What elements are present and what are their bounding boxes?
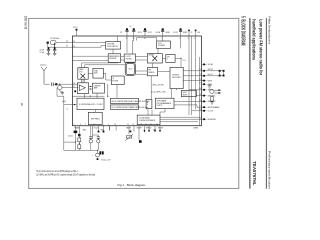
svg-text:22: 22 bbox=[199, 79, 201, 81]
capacitor C1 bbox=[47, 47, 50, 53]
svg-text:24: 24 bbox=[199, 69, 201, 71]
svg-text:5: 5 bbox=[74, 124, 75, 126]
wire demod to stereo bbox=[158, 71, 170, 73]
svg-text:TEA5767HL: TEA5767HL bbox=[252, 161, 257, 185]
svg-text:13: 13 bbox=[140, 124, 142, 126]
svg-text:11: 11 bbox=[127, 124, 129, 126]
block U8 FM mixer bbox=[147, 54, 162, 63]
wire crystal to pin XTAL1 bbox=[56, 42, 73, 44]
svg-text:5 BLOCK DIAGRAM: 5 BLOCK DIAGRAM bbox=[239, 16, 245, 45]
svg-text:VREF: VREF bbox=[208, 80, 212, 82]
svg-text:CP: CP bbox=[120, 32, 122, 34]
wire limiter down to counter bbox=[96, 93, 98, 98]
svg-text:37: 37 bbox=[66, 46, 68, 48]
svg-text:10: 10 bbox=[114, 124, 116, 126]
svg-text:2: 2 bbox=[167, 59, 168, 61]
wire crystal left lead bbox=[46, 43, 48, 48]
wire loop filter to mixer a bbox=[135, 56, 147, 58]
svg-text:23: 23 bbox=[199, 74, 201, 76]
top pin wires bbox=[127, 31, 196, 36]
svg-text:DEMOD: DEMOD bbox=[148, 72, 155, 74]
wire amp down to counter bbox=[84, 94, 86, 99]
svg-text:REF FREQ: REF FREQ bbox=[91, 118, 100, 120]
pin pad top-left bbox=[76, 29, 78, 31]
block U20 IF centre frequency strip bbox=[111, 98, 139, 103]
capacitor C2 bbox=[53, 43, 56, 54]
wire businterface to bus bbox=[160, 118, 203, 120]
wire RFI2 bbox=[62, 87, 73, 89]
header rule 2 (below title) bbox=[249, 18, 251, 189]
vertical wire DATA down bbox=[195, 36, 197, 109]
svg-text:Preliminary specification: Preliminary specification bbox=[267, 151, 271, 189]
wire counter to reference bbox=[95, 110, 97, 113]
svg-text:7: 7 bbox=[85, 124, 86, 126]
wire ports down bbox=[160, 109, 165, 115]
svg-text:DECODER: DECODER bbox=[172, 77, 181, 79]
svg-text:V batt = 3 V: V batt = 3 V bbox=[101, 159, 111, 162]
CE2 lead to rail bbox=[90, 143, 92, 150]
svg-text:38: 38 bbox=[66, 41, 68, 43]
wire K to ports bbox=[170, 89, 172, 99]
wire ports to pins bbox=[174, 100, 203, 102]
bottom pads bbox=[74, 131, 132, 134]
varicap bottom lead bbox=[60, 90, 63, 93]
audio out arrows bbox=[214, 90, 220, 94]
svg-text:TMUTE: TMUTE bbox=[126, 127, 131, 129]
svg-text:FILTER: FILTER bbox=[126, 58, 132, 60]
wires D to L bbox=[81, 79, 83, 83]
svg-text:(1) V(AFL) and V(AFR) are AC-c: (1) V(AFL) and V(AFR) are AC-coupled thr… bbox=[36, 174, 96, 177]
svg-text:21: 21 bbox=[199, 83, 201, 85]
pin stub near IC top-left bbox=[76, 31, 78, 36]
wire VCO pins down bbox=[162, 36, 164, 41]
ground 2 bbox=[61, 93, 65, 95]
wires into reference divider bbox=[73, 55, 109, 57]
feed wire from left bbox=[64, 141, 76, 143]
electrolytic cap CE2 bbox=[89, 137, 92, 140]
wire iffilter down bbox=[116, 85, 118, 99]
bottom pin labels bbox=[75, 126, 199, 131]
block U11 stereo decoder bbox=[170, 67, 183, 88]
svg-text:18: 18 bbox=[199, 100, 201, 102]
amplifier triangle in U12 bbox=[79, 85, 85, 91]
node dots input bbox=[56, 84, 61, 85]
svg-text:The pin numbers shown refer to: The pin numbers shown refer to the LQFP3… bbox=[36, 170, 78, 173]
block U10 FM demodulator bbox=[147, 68, 157, 76]
svg-text:GND2: GND2 bbox=[183, 32, 188, 34]
svg-text:Fig.1 Block diagram.: Fig.1 Block diagram. bbox=[118, 183, 147, 187]
svg-text:OSCILLATOR: OSCILLATOR bbox=[107, 45, 118, 48]
wire stubs down to CE3 bbox=[93, 135, 99, 139]
wire demod down to ADC bbox=[150, 76, 152, 100]
wire pins to block A bbox=[117, 36, 119, 42]
down arrows on bottom pins bbox=[144, 130, 161, 132]
wire mute to pins bbox=[196, 95, 203, 97]
svg-text:27: 27 bbox=[73, 86, 75, 88]
wire stereo down to mute bbox=[176, 89, 178, 91]
svg-text:IF CENTER ADJUST + COUNT: IF CENTER ADJUST + COUNT bbox=[79, 103, 103, 106]
wire mixer out down bbox=[152, 63, 154, 68]
bottom pin wires bbox=[75, 126, 160, 140]
svg-text:FILTER: FILTER bbox=[112, 80, 118, 82]
svg-text:8: 8 bbox=[21, 102, 23, 106]
svg-text:Low power FM stereo radio for: Low power FM stereo radio for bbox=[259, 19, 264, 75]
block U13 limiter bbox=[92, 83, 104, 93]
block U17 ADC bbox=[146, 99, 152, 108]
wire VCO C2 to demod bbox=[135, 70, 147, 72]
battery pad bbox=[97, 158, 99, 160]
top pin cap bars bbox=[125, 30, 182, 31]
svg-text:17: 17 bbox=[199, 106, 201, 108]
block U19 bus interface bbox=[137, 115, 160, 125]
svg-text:34: 34 bbox=[73, 46, 75, 48]
svg-text:39: 39 bbox=[144, 38, 146, 40]
battery node dot bbox=[97, 150, 98, 151]
svg-text:14: 14 bbox=[146, 124, 148, 126]
wire lna to iffilter bbox=[104, 73, 112, 80]
crystal X1 body bbox=[50, 40, 56, 44]
wire mixer to div bbox=[162, 57, 165, 59]
svg-text:38: 38 bbox=[133, 38, 135, 40]
svg-text:IF COUNTER RESULT BAND LIMITS: IF COUNTER RESULT BAND LIMITS f=150 kHz bbox=[112, 106, 149, 109]
wire C1 to C2 bbox=[129, 61, 131, 63]
svg-text:3: 3 bbox=[188, 38, 189, 40]
wire xtal1 to oscillator block bbox=[73, 42, 106, 44]
wire left down 2 bbox=[57, 88, 77, 105]
svg-text:16: 16 bbox=[156, 124, 158, 126]
svg-text:handheld applications: handheld applications bbox=[252, 19, 257, 60]
svg-text:LF: LF bbox=[130, 26, 132, 28]
battery branch wire bbox=[97, 150, 99, 153]
ground under C1 bbox=[47, 53, 51, 55]
svg-text:antenna: antenna bbox=[40, 64, 47, 67]
block labels (tiny) bbox=[79, 43, 189, 122]
small pad on chain bbox=[78, 134, 80, 136]
right external pads on tank wires bbox=[219, 70, 225, 77]
header rule 1 bbox=[265, 18, 267, 189]
CE2 circle bbox=[89, 140, 92, 143]
pin numbers left inside bbox=[73, 41, 75, 88]
svg-text:DIVIDER: DIVIDER bbox=[109, 58, 117, 60]
extra bottom pin stub bbox=[109, 126, 111, 131]
CE3 circle bbox=[97, 140, 100, 143]
varicap top lead bbox=[59, 84, 61, 85]
pot pad bbox=[139, 140, 142, 143]
svg-text:BUSMODE: BUSMODE bbox=[208, 119, 216, 121]
electrolytic cap CE1 bbox=[99, 151, 103, 154]
wire amp to limiter a bbox=[89, 85, 93, 87]
pin numbers top inside bbox=[126, 38, 196, 40]
bus vertical line bbox=[199, 57, 201, 126]
left pad wire down bbox=[74, 133, 76, 150]
svg-text:3-WIRE INTERFACE: 3-WIRE INTERFACE bbox=[139, 119, 156, 122]
vertical wire CLK down bbox=[191, 36, 193, 115]
svg-text:PORTS: PORTS bbox=[157, 105, 164, 107]
wire B to C1 bbox=[121, 56, 125, 58]
svg-text:20: 20 bbox=[199, 88, 201, 90]
wire strips to bus bbox=[147, 109, 149, 115]
block U3 loop filter bbox=[124, 54, 135, 62]
supply rail bbox=[64, 149, 98, 151]
svg-text:x1: x1 bbox=[66, 109, 68, 111]
svg-text:37: 37 bbox=[126, 38, 128, 40]
wire A to G bbox=[137, 38, 157, 41]
block U18 software ports bbox=[155, 98, 174, 109]
block U12 IF amplifier bbox=[77, 83, 88, 94]
block U2 reference divider bbox=[108, 54, 121, 63]
svg-text:VCO2: VCO2 bbox=[148, 32, 152, 34]
svg-text:10 kΩ: 10 kΩ bbox=[68, 136, 73, 138]
wire quad feed a bbox=[82, 63, 118, 68]
wire stub to CE2 bbox=[90, 135, 92, 137]
bus wires to right pins bbox=[160, 116, 200, 118]
battery B1 bbox=[96, 153, 100, 157]
left loop vertical bbox=[63, 105, 65, 151]
wires R1a R1b bbox=[78, 130, 80, 150]
right resistor wires and ground bbox=[210, 96, 214, 105]
pin numbers bottom inside bbox=[74, 124, 158, 126]
wire VCO C2 to demod b bbox=[135, 73, 147, 75]
block U6 IF filter bbox=[111, 76, 124, 85]
block U5 LNA bbox=[93, 68, 103, 78]
ground under C2 bbox=[53, 53, 57, 55]
bus wire under L bbox=[73, 95, 105, 97]
svg-text:28: 28 bbox=[73, 83, 75, 85]
wire osc to divider bbox=[112, 49, 114, 54]
CE3 lead to rail bbox=[97, 143, 99, 150]
input wire RFI1 bbox=[44, 83, 50, 85]
wire reference down pin bbox=[102, 125, 104, 126]
svg-text:DIVIDER: DIVIDER bbox=[158, 45, 166, 47]
junction dot N input bbox=[74, 104, 75, 105]
IC internal block outlines bbox=[77, 41, 196, 125]
svg-text:12: 12 bbox=[132, 124, 134, 126]
vertical wire F down to N bbox=[107, 84, 109, 97]
varicap D1 bbox=[58, 85, 62, 89]
svg-text:15: 15 bbox=[199, 118, 201, 120]
wire stereo out right bbox=[183, 70, 203, 72]
block U4 quadrature mixer bbox=[78, 68, 88, 80]
svg-text:15: 15 bbox=[150, 124, 152, 126]
wire loop filter to mixer b bbox=[135, 59, 147, 61]
wire pin to tun comp bbox=[126, 36, 128, 53]
IC boundary bbox=[73, 36, 202, 126]
svg-text:0 90: 0 90 bbox=[79, 72, 82, 74]
right pin pads bbox=[203, 70, 205, 120]
wire vco to mixer bbox=[157, 48, 159, 53]
resistor R1b bbox=[78, 145, 81, 149]
resistor R1a on phase pin chain bbox=[78, 138, 81, 142]
svg-text:IF1 IF CENTRE FREQUENCY ADJUST: IF1 IF CENTRE FREQUENCY ADJUST f=225 kHz bbox=[112, 100, 150, 103]
wire xtal2 into osc bbox=[73, 46, 106, 48]
mixer U8 cross bbox=[152, 56, 157, 61]
wire quad feed b bbox=[85, 65, 125, 68]
crystal X1 pad bbox=[47, 42, 49, 44]
svg-text:2002 Nov 06: 2002 Nov 06 bbox=[24, 16, 28, 29]
right resistor R2 bbox=[211, 96, 213, 101]
C1 top pad bbox=[48, 47, 50, 49]
wire mixer4 up from amp bbox=[82, 79, 84, 83]
pin stub right top extra bbox=[201, 63, 206, 65]
svg-text:35: 35 bbox=[73, 41, 75, 43]
svg-text:GND1: GND1 bbox=[166, 32, 171, 34]
top pin pads bbox=[126, 28, 196, 31]
mixer U4 cross bbox=[80, 74, 85, 79]
svg-text:RFGND: RFGND bbox=[146, 127, 152, 129]
wire XTAL2 bbox=[47, 46, 72, 48]
svg-text:QUAD: QUAD bbox=[79, 68, 85, 71]
svg-text:6: 6 bbox=[80, 124, 81, 126]
wire rfi2 to amp bbox=[73, 86, 79, 88]
wire div down to stereo bbox=[175, 58, 181, 67]
svg-text:DEEM: DEEM bbox=[194, 127, 199, 129]
audio out circle bbox=[210, 89, 214, 93]
wires to external caps bbox=[206, 71, 223, 76]
figure frame bbox=[29, 18, 239, 188]
svg-text:PILDET: PILDET bbox=[158, 127, 163, 129]
svg-text:VCCRF: VCCRF bbox=[137, 127, 142, 129]
block U15 tuning system bbox=[88, 112, 102, 124]
capacitor C3 (series) bbox=[52, 83, 54, 86]
svg-text:ref(1): ref(1) bbox=[62, 100, 66, 103]
ground on AGND pin bbox=[209, 84, 211, 86]
block U16 mute control bbox=[181, 90, 196, 96]
wire pin2 to tun comp bbox=[133, 36, 134, 54]
svg-text:16: 16 bbox=[199, 109, 201, 111]
electrolytic cap CE3 bbox=[97, 137, 100, 140]
pad on left edge RF ground bbox=[74, 90, 76, 92]
block U1 crystal oscillator bbox=[106, 42, 121, 49]
tuning pot TR1 bbox=[125, 134, 133, 141]
svg-text:19: 19 bbox=[199, 94, 201, 96]
svg-text:MIXER: MIXER bbox=[149, 55, 155, 57]
C2 top pad bbox=[54, 47, 56, 49]
right pin labels bbox=[208, 69, 220, 121]
svg-text:CL: CL bbox=[191, 32, 193, 34]
vertical wire VCCD down bbox=[180, 36, 182, 48]
svg-text:32.768 kHz: 32.768 kHz bbox=[50, 38, 59, 40]
wire rfi1 to amp bbox=[73, 83, 79, 85]
block U9 divider bbox=[166, 54, 175, 62]
wire mix4 to lna bbox=[88, 72, 93, 74]
pin numbers right inside bbox=[199, 69, 201, 119]
svg-text:Philips Semiconductors: Philips Semiconductors bbox=[268, 16, 272, 44]
svg-text:f(IF) = 225 kHz: f(IF) = 225 kHz bbox=[153, 85, 164, 87]
block U3b VCO rounded bbox=[125, 63, 135, 76]
right pin wires bbox=[201, 71, 206, 119]
wire amp to limiter b bbox=[89, 88, 93, 90]
block U7 VCO bbox=[157, 41, 171, 48]
svg-text:VCO1: VCO1 bbox=[138, 32, 142, 34]
top pin labels bbox=[120, 26, 201, 34]
wire C3 to pin RFI1 bbox=[53, 83, 72, 85]
svg-text:f(LO) = f(RF) + f(IF): f(LO) = f(RF) + f(IF) bbox=[151, 92, 166, 94]
wire stereo to pins 2 bbox=[183, 80, 203, 82]
block U21 resampling strip bbox=[111, 105, 139, 109]
block U14 IF counter bbox=[77, 98, 104, 109]
vertical wire BUSEN down bbox=[188, 36, 190, 115]
antenna ANT1 bbox=[41, 67, 47, 84]
junction dot R1 bbox=[79, 143, 80, 144]
svg-text:CLOCK: CLOCK bbox=[208, 111, 214, 113]
